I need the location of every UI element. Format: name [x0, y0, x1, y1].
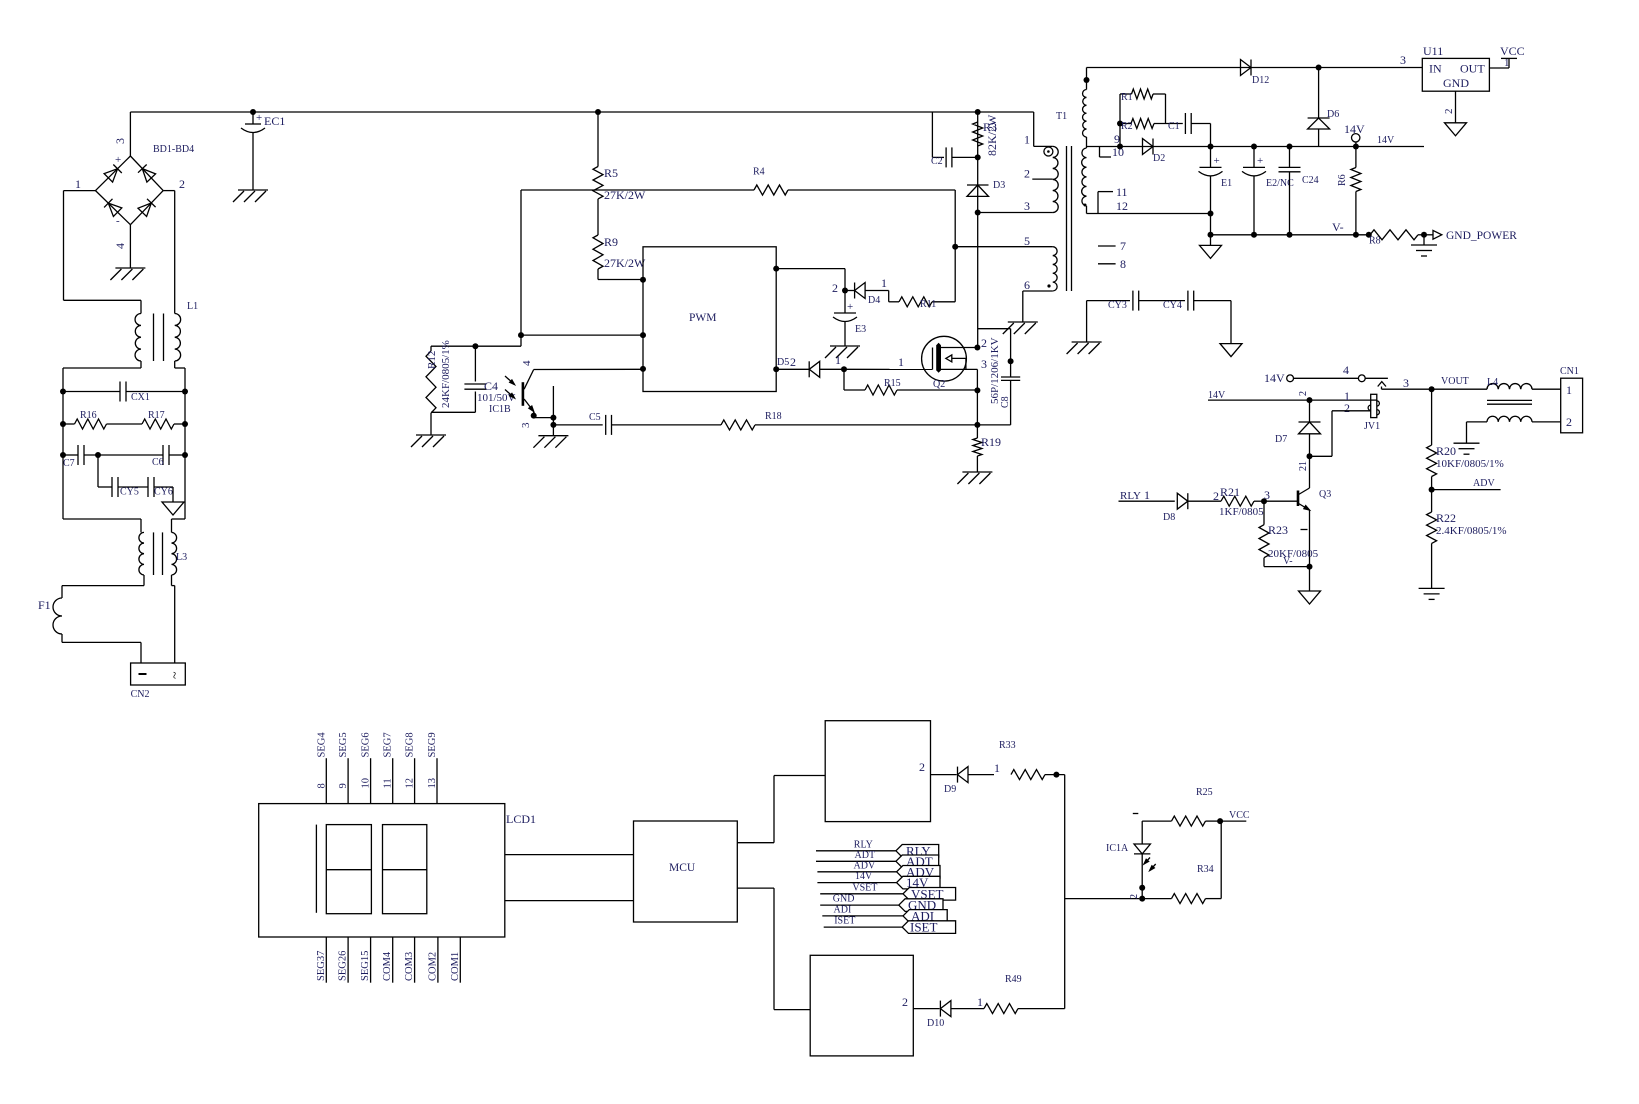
svg-text:14V: 14V — [1264, 371, 1285, 385]
svg-text:C1: C1 — [1168, 121, 1180, 132]
svg-text:8: 8 — [316, 783, 327, 788]
svg-text:ADI: ADI — [834, 904, 852, 915]
svg-text:RLY: RLY — [1120, 490, 1141, 502]
svg-text:R25: R25 — [1196, 787, 1213, 798]
svg-text:9: 9 — [338, 783, 349, 788]
svg-text:R49: R49 — [1005, 974, 1022, 985]
svg-text:ADT: ADT — [855, 850, 876, 861]
svg-text:3: 3 — [1264, 488, 1270, 502]
svg-text:R34: R34 — [1197, 864, 1214, 875]
svg-text:1: 1 — [1024, 133, 1030, 147]
svg-text:C8: C8 — [1000, 396, 1011, 408]
svg-text:2: 2 — [1213, 489, 1219, 503]
svg-text:+: + — [1214, 155, 1220, 167]
svg-text:SEG9: SEG9 — [427, 732, 438, 757]
svg-text:1KF/0805: 1KF/0805 — [1219, 506, 1264, 518]
svg-text:R19: R19 — [981, 435, 1001, 449]
svg-text:12: 12 — [1116, 199, 1128, 213]
svg-text:GND_POWER: GND_POWER — [1446, 230, 1517, 242]
svg-text:1: 1 — [977, 995, 983, 1009]
svg-text:D3: D3 — [993, 180, 1005, 191]
svg-text:56P/1206/1KV: 56P/1206/1KV — [989, 337, 1001, 404]
svg-text:2: 2 — [1298, 391, 1309, 396]
svg-text:11: 11 — [1116, 185, 1128, 199]
svg-text:D2: D2 — [1153, 153, 1165, 164]
svg-text:R20: R20 — [1436, 444, 1456, 458]
svg-text:R17: R17 — [148, 410, 165, 421]
svg-text:E1: E1 — [1221, 178, 1232, 189]
svg-text:CY5: CY5 — [120, 487, 139, 498]
svg-text:COM4: COM4 — [382, 951, 393, 981]
svg-text:R23: R23 — [1268, 523, 1288, 537]
svg-text:IN: IN — [1429, 62, 1442, 76]
svg-text:IC1A: IC1A — [1106, 843, 1129, 854]
svg-text:4: 4 — [521, 360, 533, 366]
svg-text:11: 11 — [383, 778, 394, 788]
svg-text:VSET: VSET — [852, 882, 877, 893]
svg-text:2: 2 — [179, 177, 185, 191]
svg-text:6: 6 — [1024, 278, 1030, 292]
svg-text:CN1: CN1 — [1560, 366, 1579, 377]
svg-text:GND: GND — [1443, 76, 1469, 90]
svg-text:SEG8: SEG8 — [405, 732, 416, 757]
svg-text:R9: R9 — [604, 235, 618, 249]
svg-text:R2: R2 — [1121, 121, 1133, 132]
svg-text:2: 2 — [902, 995, 908, 1009]
svg-text:14V: 14V — [1208, 390, 1226, 401]
svg-text:D12: D12 — [1252, 75, 1269, 86]
svg-text:D8: D8 — [1163, 512, 1175, 523]
svg-text:Q3: Q3 — [1319, 489, 1331, 500]
svg-text:10: 10 — [1112, 145, 1124, 159]
svg-text:V-: V- — [1283, 556, 1293, 567]
svg-text:CX1: CX1 — [131, 392, 150, 403]
svg-text:D9: D9 — [944, 784, 956, 795]
svg-text:2.4KF/0805/1%: 2.4KF/0805/1% — [1436, 525, 1507, 537]
svg-text:82K/2W: 82K/2W — [985, 114, 999, 156]
svg-text:21: 21 — [1298, 461, 1309, 471]
svg-text:3: 3 — [1400, 53, 1406, 67]
svg-text:2: 2 — [1566, 415, 1572, 429]
svg-text:R22: R22 — [1436, 511, 1456, 525]
svg-text:U11: U11 — [1423, 44, 1443, 58]
svg-text:2: 2 — [981, 336, 987, 350]
svg-text:C4: C4 — [484, 379, 498, 393]
svg-text:PWM: PWM — [689, 312, 716, 324]
svg-text:L3: L3 — [176, 552, 187, 563]
svg-text:C5: C5 — [589, 412, 601, 423]
svg-text:CY4: CY4 — [1163, 300, 1182, 311]
svg-text:D4: D4 — [868, 295, 880, 306]
svg-text:2: 2 — [1129, 894, 1140, 899]
svg-text:COM3: COM3 — [404, 952, 415, 981]
svg-text:8: 8 — [1120, 257, 1126, 271]
svg-text:R33: R33 — [999, 740, 1016, 751]
svg-text:GND: GND — [833, 894, 855, 905]
svg-text:4: 4 — [113, 243, 127, 249]
svg-text:3: 3 — [113, 138, 127, 144]
svg-text:2: 2 — [1443, 109, 1455, 115]
svg-text:BD1-BD4: BD1-BD4 — [153, 144, 194, 155]
svg-text:27K/2W: 27K/2W — [604, 256, 646, 270]
svg-text:SEG4: SEG4 — [316, 732, 327, 758]
svg-text:10: 10 — [361, 778, 372, 789]
svg-text:3: 3 — [981, 357, 987, 371]
svg-text:CY6: CY6 — [154, 487, 173, 498]
svg-text:3: 3 — [520, 422, 532, 428]
svg-text:1: 1 — [75, 177, 81, 191]
svg-text:C7: C7 — [63, 458, 75, 469]
svg-text:OUT: OUT — [1460, 62, 1485, 76]
svg-text:1: 1 — [898, 355, 904, 369]
svg-text:2: 2 — [1024, 167, 1030, 181]
svg-text:R16: R16 — [80, 410, 97, 421]
svg-text:D6: D6 — [1327, 109, 1339, 120]
svg-text:1: 1 — [835, 353, 841, 367]
svg-text:MCU: MCU — [669, 862, 696, 874]
svg-text:R11: R11 — [920, 299, 936, 310]
svg-text:1: 1 — [994, 761, 1000, 775]
svg-text:JV1: JV1 — [1364, 421, 1380, 432]
svg-text:1: 1 — [1504, 57, 1510, 69]
svg-text:9: 9 — [1114, 132, 1120, 146]
svg-text:2: 2 — [919, 760, 925, 774]
svg-text:+: + — [115, 154, 121, 166]
svg-text:1: 1 — [1566, 383, 1572, 397]
svg-text:2: 2 — [790, 355, 796, 369]
svg-text:VCC: VCC — [1500, 44, 1525, 58]
svg-text:R6: R6 — [1337, 174, 1348, 186]
svg-text:R21: R21 — [1220, 485, 1240, 499]
svg-text:L4: L4 — [1487, 377, 1498, 388]
svg-text:V-: V- — [1332, 220, 1344, 234]
svg-text:T1: T1 — [1056, 111, 1067, 122]
svg-text:10KF/0805/1%: 10KF/0805/1% — [1436, 458, 1504, 470]
svg-text:SEG15: SEG15 — [360, 951, 371, 981]
svg-text:D5: D5 — [777, 357, 789, 368]
svg-text:R12: R12 — [426, 351, 438, 369]
svg-text:13: 13 — [427, 778, 438, 789]
svg-text:D10: D10 — [927, 1018, 944, 1029]
svg-text:LCD1: LCD1 — [506, 812, 536, 826]
svg-text:SEG5: SEG5 — [338, 732, 349, 757]
svg-text:14V: 14V — [1344, 122, 1365, 136]
svg-text:C24: C24 — [1302, 175, 1319, 186]
svg-text:EC1: EC1 — [264, 114, 285, 128]
svg-text:24KF/0805/1%: 24KF/0805/1% — [440, 340, 452, 408]
svg-text:D7: D7 — [1275, 434, 1287, 445]
svg-text:ISET: ISET — [910, 920, 938, 935]
svg-text:R1: R1 — [1121, 92, 1133, 103]
svg-text:3: 3 — [1403, 376, 1409, 390]
svg-text:R18: R18 — [765, 411, 782, 422]
svg-text:ADV: ADV — [854, 860, 876, 871]
svg-text:CY3: CY3 — [1108, 300, 1127, 311]
svg-text:+: + — [1257, 155, 1263, 167]
svg-text:L1: L1 — [187, 301, 198, 312]
svg-text:1: 1 — [881, 276, 887, 290]
svg-text:SEG37: SEG37 — [316, 951, 327, 981]
svg-text:C2: C2 — [931, 156, 943, 167]
svg-text:14V: 14V — [1377, 135, 1395, 146]
svg-text:-: - — [116, 215, 120, 227]
svg-text:SEG7: SEG7 — [383, 732, 394, 757]
svg-text:R5: R5 — [604, 166, 618, 180]
svg-text:F1: F1 — [38, 598, 51, 612]
svg-text:CN2: CN2 — [131, 689, 150, 700]
svg-text:R4: R4 — [753, 167, 765, 178]
svg-text:ISET: ISET — [834, 916, 855, 927]
svg-text:C6: C6 — [152, 457, 164, 468]
svg-text:E3: E3 — [855, 324, 866, 335]
svg-text:R15: R15 — [884, 378, 901, 389]
svg-text:5: 5 — [1024, 234, 1030, 248]
svg-text:VCC: VCC — [1229, 810, 1250, 821]
svg-text:SEG6: SEG6 — [361, 732, 372, 757]
svg-text:14V: 14V — [855, 871, 873, 882]
svg-text:1: 1 — [1144, 488, 1150, 502]
svg-text:3: 3 — [1024, 199, 1030, 213]
svg-text:4: 4 — [1343, 363, 1349, 377]
svg-text:COM1: COM1 — [450, 952, 461, 981]
svg-text:2: 2 — [1344, 401, 1350, 415]
svg-text:20KF/0805: 20KF/0805 — [1268, 548, 1319, 560]
svg-text:SEG26: SEG26 — [338, 951, 349, 981]
svg-text:+: + — [847, 301, 853, 313]
svg-text:7: 7 — [1120, 239, 1126, 253]
svg-text:COM2: COM2 — [427, 952, 438, 981]
svg-text:ADV: ADV — [1473, 478, 1495, 489]
svg-text:Q2: Q2 — [933, 379, 945, 390]
svg-text:2: 2 — [832, 281, 838, 295]
svg-text:R8: R8 — [1369, 236, 1381, 247]
svg-text:+: + — [256, 112, 262, 124]
svg-text:IC1B: IC1B — [489, 404, 511, 415]
svg-text:12: 12 — [405, 778, 416, 789]
svg-text:~: ~ — [168, 671, 183, 679]
svg-text:VOUT: VOUT — [1441, 376, 1469, 387]
